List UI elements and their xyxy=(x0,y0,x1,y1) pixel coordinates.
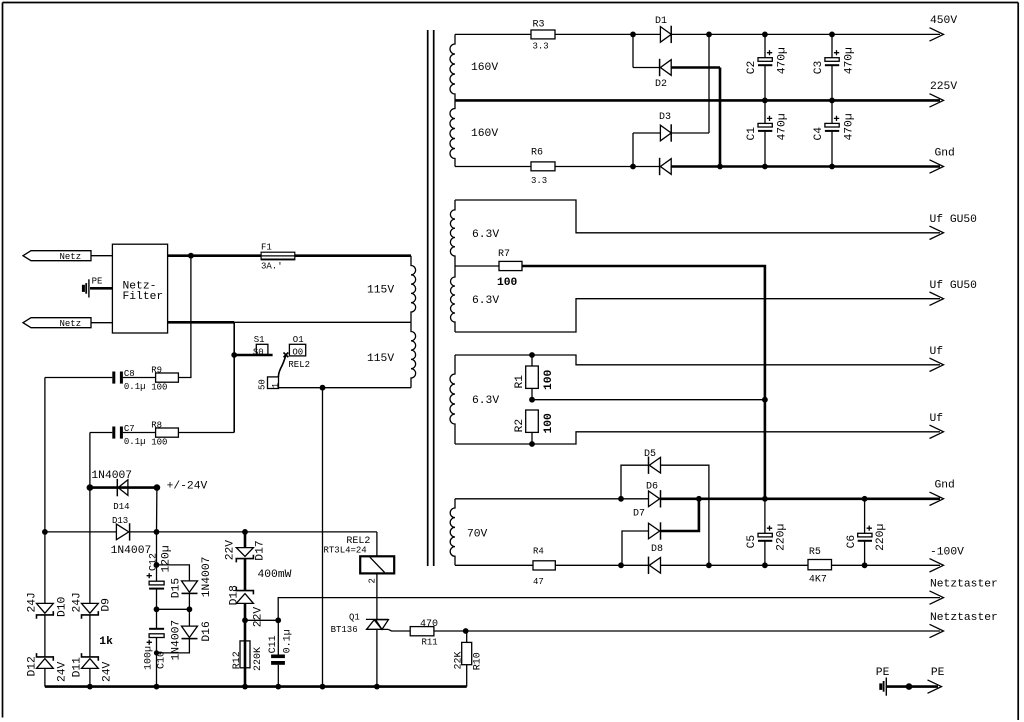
diode D3 xyxy=(659,112,671,142)
svg-text:Uf GU50: Uf GU50 xyxy=(930,214,978,226)
svg-text:120µ: 120µ xyxy=(160,545,172,572)
node junction F1 branch xyxy=(188,253,194,259)
node output 225V xyxy=(930,81,958,107)
svg-text:D8: D8 xyxy=(651,544,663,555)
node output Uf no.2 xyxy=(930,413,944,439)
svg-text:100: 100 xyxy=(151,383,167,393)
node junction D15 branch xyxy=(154,562,160,568)
node junction rail x278 xyxy=(275,684,281,690)
wire 70V top to Gnd row xyxy=(455,498,649,500)
svg-text:Gnd: Gnd xyxy=(935,147,955,159)
diode D6 xyxy=(646,481,661,507)
svg-text:C4: C4 xyxy=(813,127,825,141)
svg-text:6.3V: 6.3V xyxy=(472,395,499,407)
svg-text:1N4007: 1N4007 xyxy=(201,557,213,598)
triac Q1 xyxy=(331,612,411,686)
svg-text:24J: 24J xyxy=(27,592,39,612)
wire 6.3V no.3 bottom to Uf row 2 xyxy=(455,432,940,444)
diode D7 xyxy=(633,509,661,540)
svg-text:24V: 24V xyxy=(56,661,68,682)
svg-text:3.3: 3.3 xyxy=(533,41,549,51)
svg-text:0.1µ: 0.1µ xyxy=(283,629,294,653)
node junction C6 bottom xyxy=(862,562,868,568)
svg-text:R7: R7 xyxy=(498,249,510,260)
node junction D13 row x156 xyxy=(154,529,160,535)
svg-text:R5: R5 xyxy=(809,547,821,558)
resistor R3 xyxy=(531,20,555,52)
node junction rail x156 xyxy=(154,684,160,690)
transformer secondary winding 6.3V no.1 xyxy=(450,200,455,266)
svg-text:-100V: -100V xyxy=(930,546,964,558)
node output Uf GU50 no.2 xyxy=(930,280,978,305)
node output Netztaster no.2 xyxy=(930,612,998,638)
wire Netztaster row 1 xyxy=(278,598,940,621)
svg-text:R4: R4 xyxy=(533,546,544,556)
wire Netztaster row 2 xyxy=(434,630,940,632)
node junction REL2 supply xyxy=(320,385,326,391)
svg-text:1N4007: 1N4007 xyxy=(91,470,132,482)
wire D2 anode to lower rail xyxy=(671,66,720,69)
svg-text:D16: D16 xyxy=(201,621,213,642)
resistor R6 xyxy=(531,148,555,186)
svg-text:R2: R2 xyxy=(514,419,526,433)
svg-text:R11: R11 xyxy=(422,637,438,647)
node output Gnd low xyxy=(930,480,955,506)
node junction PE xyxy=(906,683,913,690)
capacitor C12 xyxy=(147,545,173,588)
wire 225V row xyxy=(455,99,940,102)
svg-text:3.3: 3.3 xyxy=(531,176,547,186)
node junction D7 riser on Gnd xyxy=(696,496,702,502)
svg-text:24J: 24J xyxy=(72,592,84,612)
node junction D3 cathode riser xyxy=(706,32,712,38)
node junction C2 bottom / C1 top xyxy=(762,98,768,104)
node junction C6 top on Gnd xyxy=(862,496,868,502)
wire HV ground row xyxy=(455,166,531,168)
node output Uf GU50 no.1 xyxy=(930,214,978,240)
svg-text:Uf GU50: Uf GU50 xyxy=(930,280,978,292)
svg-text:D5: D5 xyxy=(644,449,656,460)
node junction on C5 column xyxy=(762,397,768,403)
svg-text:C5: C5 xyxy=(746,535,758,549)
resistor R9 xyxy=(151,365,178,392)
svg-text:470µ: 470µ xyxy=(776,47,788,74)
node junction rail x377 xyxy=(374,684,380,690)
node junction D13 row left xyxy=(42,529,48,535)
svg-text:R6: R6 xyxy=(531,148,543,159)
node output Uf no.1 xyxy=(930,346,944,372)
svg-text:D2: D2 xyxy=(655,79,667,90)
transformer core xyxy=(428,30,434,566)
svg-text:100µ: 100µ xyxy=(144,646,155,670)
wire filter top output to fuse xyxy=(168,254,411,257)
capacitor C10 xyxy=(144,629,168,670)
wire D16 bottom L to x156 xyxy=(157,639,190,653)
wire mid tap to C5 column xyxy=(532,399,765,401)
svg-text:S0: S0 xyxy=(253,347,264,357)
transformer secondary winding 160V upper xyxy=(450,34,455,100)
node output Netztaster no.1 xyxy=(930,579,998,605)
wire 450V row xyxy=(455,33,531,35)
node junction S1 row xyxy=(231,352,237,358)
ground PE at filter xyxy=(83,276,112,297)
svg-text:D17: D17 xyxy=(255,540,267,560)
zener diode D9 xyxy=(72,592,113,619)
svg-text:D1: D1 xyxy=(655,16,667,27)
wire D7 branch xyxy=(622,531,649,565)
diode D8 xyxy=(649,544,664,574)
wire D2 branch vertical xyxy=(632,34,634,67)
svg-text:Uf: Uf xyxy=(930,346,944,358)
wire REL2 supply vertical xyxy=(322,388,324,687)
svg-text:D9: D9 xyxy=(101,598,113,612)
wire center tap to primary xyxy=(234,321,411,323)
svg-text:D13: D13 xyxy=(112,516,128,526)
svg-text:50: 50 xyxy=(258,379,268,390)
node output Gnd HV xyxy=(930,147,955,173)
wire switched line to primary bottom xyxy=(279,387,412,389)
wire PE to arrow xyxy=(886,685,938,688)
svg-text:220µ: 220µ xyxy=(775,524,787,551)
svg-text:D6: D6 xyxy=(646,481,658,492)
svg-text:D15: D15 xyxy=(171,578,183,599)
wire R7 to C5 column (thick) xyxy=(522,266,765,499)
node junction D5/D6 left xyxy=(618,496,624,502)
diode D15 xyxy=(171,557,214,599)
wire column x45 xyxy=(44,378,46,687)
diode D13 xyxy=(111,516,152,557)
resistor R11 xyxy=(410,619,438,648)
node junction C4 bottom xyxy=(829,164,835,170)
zener diode D10 xyxy=(27,592,69,619)
capacitor C5 xyxy=(746,499,787,566)
wire column x90 xyxy=(89,433,91,687)
wire 6.3V no.2 bottom to Uf GU50 row 2 xyxy=(455,299,940,332)
svg-text:4K7: 4K7 xyxy=(809,575,827,586)
zener diode D11 xyxy=(72,653,114,682)
transformer secondary winding 70V xyxy=(450,499,455,566)
capacitor C3 xyxy=(813,34,855,100)
capacitor C4 xyxy=(813,100,855,166)
svg-text:220K: 220K xyxy=(253,647,264,671)
svg-text:115V: 115V xyxy=(367,353,394,365)
node junction C1 bottom xyxy=(762,164,768,170)
svg-text:1N4007: 1N4007 xyxy=(171,620,183,661)
svg-text:470µ: 470µ xyxy=(843,113,855,140)
node junction R10 top xyxy=(463,628,469,634)
svg-text:100: 100 xyxy=(151,438,167,448)
capacitor C2 xyxy=(746,34,788,100)
zener diode D18 xyxy=(229,585,265,627)
svg-text:C8: C8 xyxy=(124,369,135,379)
svg-text:400mW: 400mW xyxy=(258,569,292,581)
svg-text:PE: PE xyxy=(92,276,103,286)
svg-text:3A.': 3A.' xyxy=(261,261,283,271)
node junction D8 left xyxy=(618,562,624,568)
relay contact O1/O0 of REL2 xyxy=(278,335,310,377)
svg-text:470µ: 470µ xyxy=(776,113,788,140)
node junction D1 anode xyxy=(630,32,636,38)
node junction rail x245 xyxy=(242,684,248,690)
svg-text:C10: C10 xyxy=(156,651,167,669)
node Netz input 1 xyxy=(23,251,112,262)
svg-text:D18: D18 xyxy=(229,585,241,606)
svg-text:2: 2 xyxy=(367,578,377,583)
diode D16 xyxy=(171,609,214,660)
resistor R4 xyxy=(533,546,555,587)
svg-text:Netz: Netz xyxy=(60,319,82,329)
capacitor C8 xyxy=(112,369,145,392)
ground PE symbol right xyxy=(876,667,890,696)
transformer primary winding 115V lower xyxy=(411,322,416,387)
wire D7 cathode thick riser xyxy=(661,499,699,531)
transformer secondary winding 6.3V no.2 xyxy=(451,266,456,332)
svg-text:R1: R1 xyxy=(514,375,526,389)
svg-text:R3: R3 xyxy=(533,20,545,31)
wire C8 row xyxy=(45,377,112,379)
svg-text:Netztaster: Netztaster xyxy=(930,612,998,624)
svg-text:24V: 24V xyxy=(101,661,113,682)
wire D3 riser and row xyxy=(708,34,710,133)
node junction D2 rail joins Gnd xyxy=(717,164,723,170)
wire C7 row xyxy=(90,432,234,434)
svg-text:C12: C12 xyxy=(149,553,160,571)
node junction C5 bottom xyxy=(762,562,768,568)
node junction R1 top xyxy=(529,352,535,358)
svg-text:100: 100 xyxy=(543,413,555,434)
node junction D5 riser bottom xyxy=(706,562,712,568)
node junction C3 top xyxy=(829,32,835,38)
wire 6.3V no.1 top to Uf GU50 row 1 xyxy=(455,200,940,233)
svg-text:0.1µ: 0.1µ xyxy=(124,437,146,447)
svg-text:+/-24V: +/-24V xyxy=(167,481,208,493)
wire vertical S1 feed xyxy=(233,322,235,432)
svg-text:115V: 115V xyxy=(367,284,394,296)
node Netz input 2 xyxy=(23,318,112,329)
wire D14 row xyxy=(90,486,157,489)
svg-text:Uf: Uf xyxy=(930,413,944,425)
node junction rail x322 xyxy=(320,684,326,690)
resistor R7 xyxy=(455,249,522,289)
switch S1 lower contact box xyxy=(258,377,281,390)
resistor R10 xyxy=(454,631,484,687)
svg-text:22V: 22V xyxy=(225,540,237,561)
svg-text:D10: D10 xyxy=(56,596,68,617)
svg-text:100: 100 xyxy=(543,369,555,390)
svg-text:C11: C11 xyxy=(268,635,279,653)
svg-text:1N4007: 1N4007 xyxy=(111,545,152,557)
svg-text:470: 470 xyxy=(420,619,438,630)
svg-text:REL2: REL2 xyxy=(288,360,310,370)
svg-text:R9: R9 xyxy=(151,365,162,375)
wire D15 to mid row xyxy=(188,593,190,609)
wire bottom rail xyxy=(45,685,467,688)
svg-text:6.3V: 6.3V xyxy=(472,295,499,307)
node output PE xyxy=(928,667,945,693)
capacitor C7 xyxy=(112,424,145,447)
node output -100V xyxy=(930,546,965,572)
zener diode D12 xyxy=(27,653,69,682)
svg-text:C3: C3 xyxy=(813,61,825,75)
resistor R12 xyxy=(232,641,264,671)
svg-text:225V: 225V xyxy=(930,81,957,93)
svg-text:D12: D12 xyxy=(27,656,39,676)
svg-text:PE: PE xyxy=(876,667,890,679)
svg-text:D7: D7 xyxy=(633,509,645,520)
node junction C3 bottom / C4 top xyxy=(829,98,835,104)
wire S1 row stub xyxy=(234,354,272,357)
resistor R8 xyxy=(151,420,178,447)
svg-text:F1: F1 xyxy=(261,243,272,253)
diode D14 xyxy=(91,470,132,512)
node junction D13 row x245 xyxy=(242,529,248,535)
svg-text:R10: R10 xyxy=(473,652,484,670)
node junction C5 column on Gnd xyxy=(762,496,768,502)
node junction R1-R2 mid xyxy=(529,397,535,403)
svg-text:Q1: Q1 xyxy=(349,612,360,622)
svg-text:C2: C2 xyxy=(746,61,758,75)
diode D5 xyxy=(644,449,661,474)
svg-text:0.1µ: 0.1µ xyxy=(124,382,146,392)
svg-text:22K: 22K xyxy=(454,651,465,669)
svg-text:470µ: 470µ xyxy=(843,47,855,74)
svg-text:D11: D11 xyxy=(72,657,84,678)
wire D15 branch row xyxy=(157,565,190,581)
svg-text:100: 100 xyxy=(497,277,518,289)
zener diode D17 xyxy=(225,540,267,563)
svg-text:C7: C7 xyxy=(124,424,135,434)
svg-text:160V: 160V xyxy=(471,128,498,140)
svg-text:D14: D14 xyxy=(113,502,129,512)
switch S1 contact box S0 xyxy=(253,335,268,357)
capacitor C11 xyxy=(268,620,293,686)
svg-text:C1: C1 xyxy=(746,127,758,141)
transformer secondary winding 160V lower xyxy=(450,100,455,166)
node junction C2 top xyxy=(762,32,768,38)
svg-text:R12: R12 xyxy=(232,651,243,669)
svg-text:Gnd: Gnd xyxy=(935,480,955,492)
diode D4 xyxy=(660,158,672,175)
wire 70V bottom row xyxy=(455,564,533,566)
svg-text:C6: C6 xyxy=(846,535,858,549)
diode D2 xyxy=(655,59,671,90)
wire D17 column xyxy=(244,532,247,687)
node output 450V xyxy=(930,15,958,41)
wire mid row xyxy=(157,608,190,610)
capacitor C1 xyxy=(746,100,788,166)
svg-text:6.3V: 6.3V xyxy=(472,229,499,241)
svg-text:Netz: Netz xyxy=(60,252,82,262)
wire D6 cathode thick to Gnd row xyxy=(661,497,941,500)
node junction R2 bottom xyxy=(529,441,535,447)
svg-text:R8: R8 xyxy=(151,420,162,430)
fuse F1 xyxy=(261,243,295,272)
svg-text:RT3L4=24: RT3L4=24 xyxy=(324,545,367,555)
svg-text:70V: 70V xyxy=(467,529,488,541)
svg-text:O0: O0 xyxy=(292,348,303,358)
wire row to C11 column xyxy=(245,619,278,621)
resistor R5 xyxy=(808,547,832,586)
capacitor C6 xyxy=(846,499,887,566)
svg-text:Netztaster: Netztaster xyxy=(930,579,998,591)
wire 24V column x156 xyxy=(156,488,158,687)
svg-text:1k: 1k xyxy=(99,636,113,648)
svg-text:22V: 22V xyxy=(253,607,265,628)
transformer primary winding 115V upper xyxy=(411,256,416,323)
wire 6.3V no.3 top to Uf row 1 xyxy=(455,355,940,365)
node junction D18/R12/C11 row xyxy=(242,617,248,623)
resistor R2 xyxy=(514,410,555,444)
node junction rail x90 xyxy=(87,684,93,690)
relay coil REL2 xyxy=(324,532,395,620)
wire D13 row xyxy=(45,531,117,533)
diode D1 xyxy=(655,16,671,43)
svg-text:220µ: 220µ xyxy=(875,524,887,551)
svg-text:160V: 160V xyxy=(471,62,498,74)
svg-text:PE: PE xyxy=(931,667,945,679)
svg-text:Filter: Filter xyxy=(123,291,164,303)
filter U100 Netz-Filter box xyxy=(112,244,167,333)
svg-text:BT136: BT136 xyxy=(331,625,358,635)
resistor R1 xyxy=(514,355,555,400)
transformer secondary winding 6.3V no.3 xyxy=(450,355,455,444)
svg-text:D3: D3 xyxy=(659,112,671,123)
node junction D4 cathode xyxy=(630,164,636,170)
svg-text:450V: 450V xyxy=(930,15,957,27)
svg-text:47: 47 xyxy=(533,577,544,587)
wire D5 branch xyxy=(621,465,709,565)
wire filter bottom output xyxy=(168,321,235,324)
